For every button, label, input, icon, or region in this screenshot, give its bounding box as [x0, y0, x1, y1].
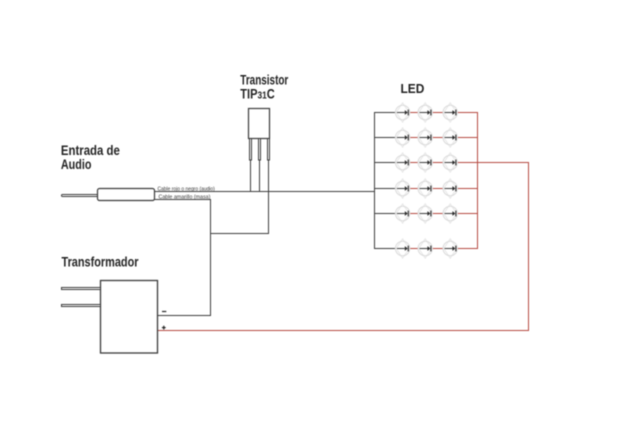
svg-text:Audio: Audio — [61, 157, 92, 173]
svg-text:Cable rojo o negro (audio): Cable rojo o negro (audio) — [158, 186, 216, 192]
svg-text:Cable amarillo (masa): Cable amarillo (masa) — [159, 194, 211, 200]
svg-text:Transformador: Transformador — [62, 254, 139, 270]
svg-text:LED: LED — [401, 81, 425, 96]
svg-text:TIP31C: TIP31C — [240, 86, 274, 102]
